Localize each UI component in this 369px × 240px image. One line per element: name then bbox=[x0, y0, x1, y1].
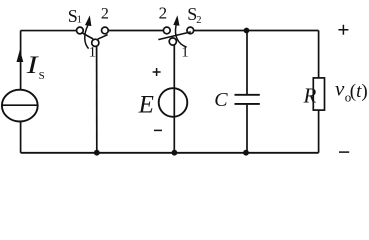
switch S1 left contact bbox=[77, 27, 84, 34]
svg-text:2: 2 bbox=[196, 15, 201, 26]
svg-text:(t): (t) bbox=[350, 81, 368, 102]
switch S2 right contact bbox=[187, 27, 194, 34]
resistor R body bbox=[313, 78, 324, 110]
plus sign E source bbox=[153, 68, 161, 76]
node dot bottom C junction bbox=[243, 150, 249, 156]
svg-text:E: E bbox=[138, 92, 154, 119]
top rail from S2 to R corner bbox=[194, 30, 319, 32]
svg-text:v: v bbox=[335, 77, 345, 101]
switch S1 right contact (pos 2) bbox=[102, 27, 109, 34]
voltage source E circle bbox=[159, 88, 188, 117]
node dot top C junction bbox=[244, 28, 250, 34]
switch S2 left contact (pos 2) bbox=[163, 27, 170, 34]
switch S2 blade bbox=[158, 32, 191, 40]
wire S1 pos1 down to rail bbox=[96, 46, 98, 153]
switch S2 throw arrow bbox=[175, 25, 186, 47]
current source IS circle bbox=[2, 90, 38, 122]
plus sign vo bbox=[338, 25, 348, 35]
svg-text:2: 2 bbox=[159, 4, 168, 23]
minus sign vo bbox=[339, 151, 349, 153]
switch S2 bottom contact (pos 1) bbox=[169, 38, 176, 45]
node dot bottom E junction bbox=[172, 150, 178, 156]
node dot bottom S1 junction bbox=[94, 150, 100, 156]
capacitor C plates bbox=[235, 95, 260, 104]
svg-text:1: 1 bbox=[89, 45, 97, 61]
bottom rail bbox=[21, 152, 319, 154]
current source bar bbox=[2, 104, 37, 106]
svg-text:C: C bbox=[214, 89, 228, 111]
minus sign E source bbox=[154, 129, 162, 131]
svg-text:2: 2 bbox=[101, 5, 109, 22]
svg-text:S: S bbox=[39, 70, 45, 82]
wire left vertical + top-left corner to S1 bbox=[21, 31, 77, 153]
resistor R branch wires bbox=[318, 31, 320, 153]
switch S1 throw arrow bbox=[85, 25, 89, 48]
svg-text:1: 1 bbox=[77, 15, 82, 26]
wire between S1 and S2 bbox=[108, 30, 163, 32]
svg-text:1: 1 bbox=[181, 45, 189, 61]
switch S1 bottom contact (pos 1) bbox=[92, 39, 99, 46]
svg-text:R: R bbox=[303, 84, 317, 108]
wire S2 pos1 down to E bbox=[173, 45, 175, 153]
current direction arrow bbox=[17, 50, 24, 62]
switch S1 blade bbox=[81, 32, 107, 39]
capacitor C branch wires bbox=[246, 31, 248, 153]
